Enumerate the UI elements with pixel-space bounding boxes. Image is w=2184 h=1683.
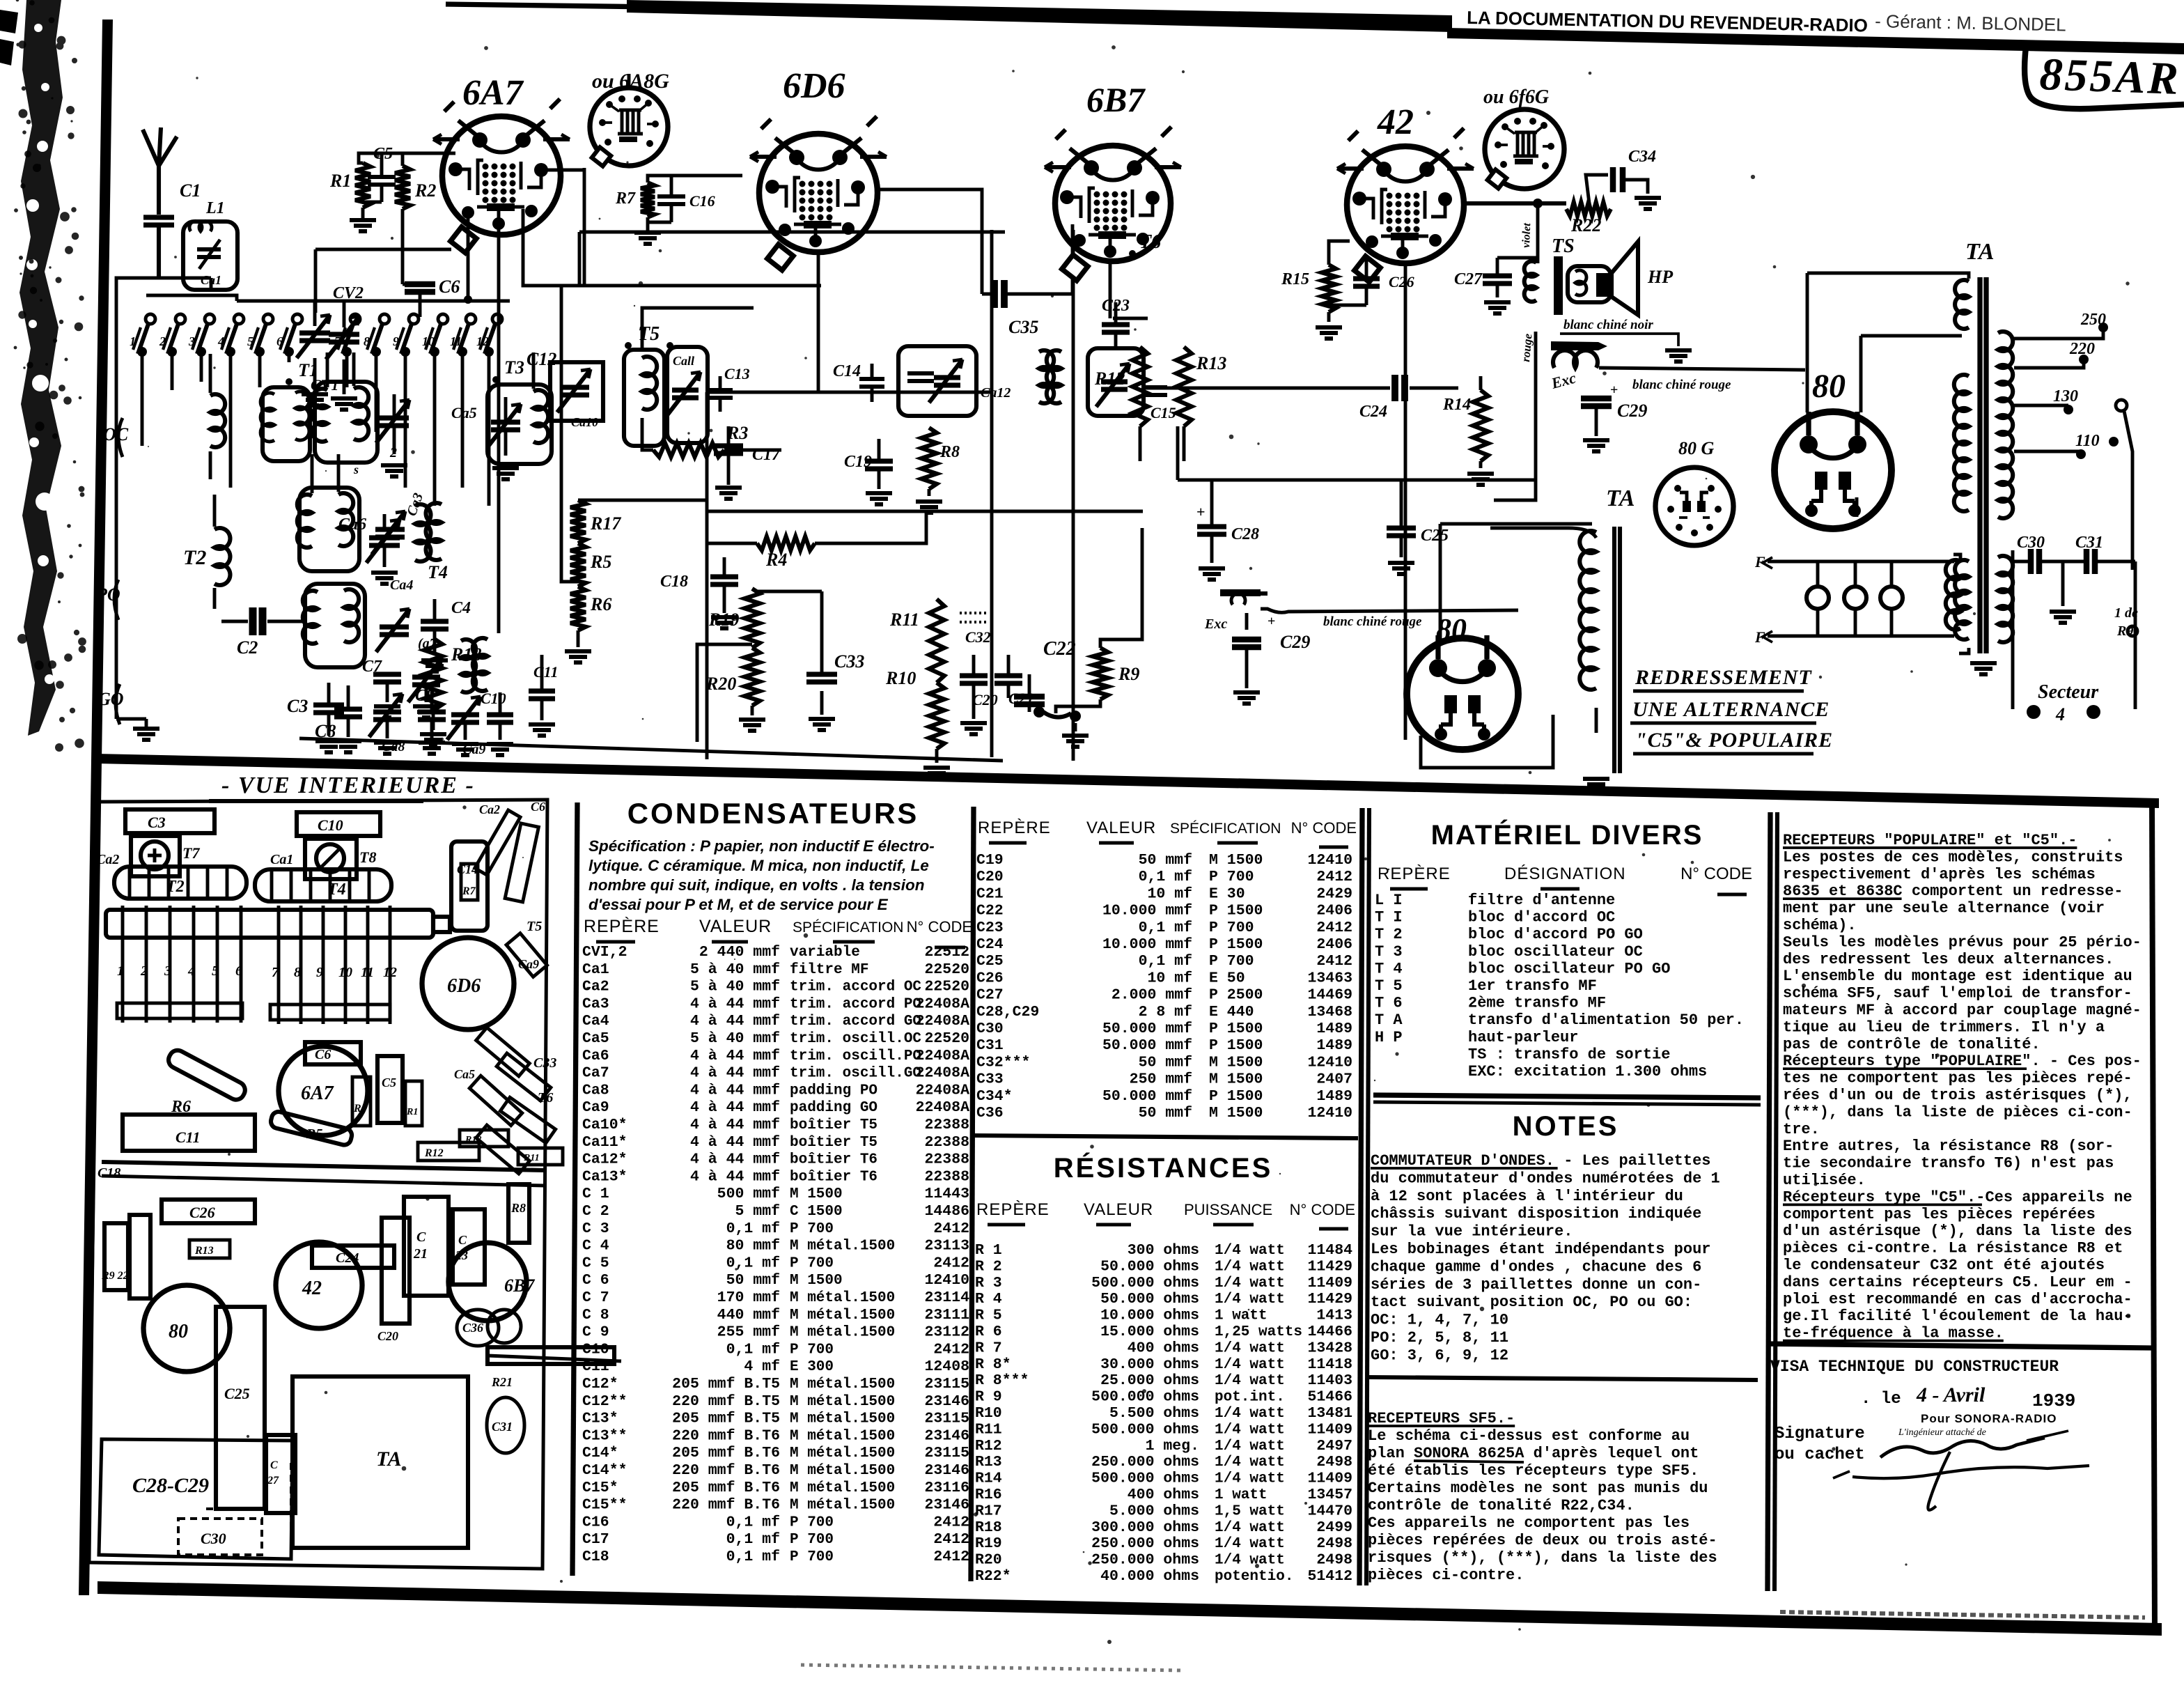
svg-text:1 watt: 1 watt [1215,1308,1267,1324]
svg-text:R 5: R 5 [975,1308,1002,1324]
svg-text:C16: C16 [582,1514,609,1530]
svg-text:P 700: P 700 [1209,920,1254,936]
svg-text:R 7: R 7 [975,1340,1002,1356]
svg-text:P 700: P 700 [1209,869,1254,885]
svg-text:4 à 44 mmf: 4 à 44 mmf [690,1048,780,1064]
svg-text:2412: 2412 [933,1255,969,1271]
svg-text:. le: . le [1861,1390,1901,1409]
svg-text:1/4 watt: 1/4 watt [1215,1422,1285,1438]
svg-text:P 1500: P 1500 [1209,1037,1263,1054]
svg-text:C11: C11 [582,1358,609,1375]
svg-text:6: 6 [235,963,242,979]
svg-text:ge.Il facilité l'écoulement de: ge.Il facilité l'écoulement de la hau- [1783,1308,2132,1325]
svg-text:12410: 12410 [1307,1105,1352,1122]
svg-text:bloc oscillateur OC: bloc oscillateur OC [1468,943,1643,961]
wire from contact 4 [229,352,233,488]
capacitor C7 [373,674,401,682]
resistor R8 [921,428,937,489]
svg-text:22408A: 22408A [916,1048,970,1064]
TA tap 250 [2014,332,2103,339]
svg-text:C17: C17 [752,446,781,464]
svg-text:MATÉRIEL DIVERS: MATÉRIEL DIVERS [1431,819,1703,851]
vue resistors R1 R2 [352,1077,370,1126]
svg-text:L1: L1 [205,199,225,217]
small tube ou 6A8G [590,88,668,166]
column rule 3a [1359,808,1362,1585]
svg-text:TA: TA [376,1448,402,1471]
band switch contact 6 [292,314,302,324]
svg-text:C 9: C 9 [582,1324,609,1341]
svg-text:40.000 ohms: 40.000 ohms [1100,1568,1199,1585]
coil T1 primary [210,394,225,447]
svg-text:1/4 watt: 1/4 watt [1215,1340,1285,1356]
coil T4 low [461,639,476,692]
svg-text:blanc chiné rouge: blanc chiné rouge [1632,378,1731,392]
T6 coils [1039,350,1054,403]
vue electrolytic C28 C29 box [99,1439,292,1559]
wire 6D6 plate to C35 [877,189,982,294]
svg-text:DÉSIGNATION: DÉSIGNATION [1504,864,1626,883]
vue capacitor C20 [382,1218,409,1324]
svg-text:6: 6 [276,334,283,348]
svg-text:comportent pas les pièces: comportent pas les pièces repérées [1783,1206,2096,1223]
svg-text:Ces appareils ne comportent: Ces appareils ne comportent pas les [1368,1514,1690,1532]
svg-text:0,1 mf: 0,1 mf [726,1220,780,1237]
svg-text:10.000 mmf: 10.000 mmf [1102,903,1192,920]
svg-text:C27: C27 [1454,270,1483,288]
svg-text:blanc chiné rouge: blanc chiné rouge [1323,614,1422,629]
svg-text:4 à 44 mmf: 4 à 44 mmf [690,1151,780,1168]
svg-text:C34: C34 [1628,148,1656,166]
svg-text:11: 11 [450,334,462,348]
svg-text:GO: GO [97,689,124,709]
svg-text:50 mmf: 50 mmf [1139,1054,1192,1071]
svg-text:C36: C36 [976,1105,1004,1122]
svg-text:440 mmf: 440 mmf [717,1307,780,1324]
svg-text:padding GO: padding GO [790,1100,877,1116]
svg-text:0,1 mf: 0,1 mf [726,1549,780,1565]
svg-text:5: 5 [212,963,219,979]
svg-text:lytique. C céramique. M mica,: lytique. C céramique. M mica, non induct… [588,857,929,874]
svg-text:22408A: 22408A [916,995,970,1012]
svg-text:SPÉCIFICATION: SPÉCIFICATION [793,920,903,936]
svg-text:Ca1: Ca1 [270,852,293,867]
svg-text:R13: R13 [194,1245,214,1257]
svg-text:P 2500: P 2500 [1209,987,1263,1004]
svg-text:C13**: C13** [582,1427,627,1444]
svg-text:CONDENSATEURS: CONDENSATEURS [627,797,919,830]
svg-text:50 mmf: 50 mmf [1139,1105,1192,1122]
svg-text:170 mmf: 170 mmf [717,1289,780,1306]
svg-text:du commutateur d'ondes numérot: du commutateur d'ondes numérotées de 1 [1371,1170,1720,1187]
svg-text:C1: C1 [180,180,201,201]
svg-text:T4: T4 [428,562,448,582]
svg-text:C35: C35 [1008,317,1038,337]
svg-text:C26: C26 [976,970,1004,986]
svg-text:REDRESSEMENT: REDRESSEMENT [1635,666,1812,689]
svg-text:contrôle de tonalité R22,C34.: contrôle de tonalité R22,C34. [1368,1497,1635,1514]
wire from contact 8 [375,352,378,432]
svg-text:C27: C27 [976,987,1004,1004]
svg-text:M 1500: M 1500 [1209,1105,1263,1122]
wire bus y734 [707,510,1143,513]
svg-text:4 à 44 mmf: 4 à 44 mmf [690,1117,780,1133]
svg-text:2 440 mmf: 2 440 mmf [699,944,780,961]
svg-text:C28,C29: C28,C29 [976,1004,1039,1021]
coil box T1 left [263,387,310,461]
svg-text:C12**: C12** [582,1393,627,1410]
capacitor C34 tone [1586,175,1608,203]
svg-text:M métal.1500: M métal.1500 [790,1308,895,1324]
svg-text:50.000 ohms: 50.000 ohms [1100,1291,1199,1308]
svg-text:mateurs MF à accord par coupla: mateurs MF à accord par couplage magné- [1783,1002,2142,1019]
svg-text:1939: 1939 [2032,1390,2075,1411]
svg-text:Ca6: Ca6 [582,1048,609,1064]
svg-text:23146: 23146 [924,1497,969,1514]
svg-text:4 mf: 4 mf [744,1358,780,1375]
svg-text:EXC: excitation 1.300 ohms: EXC: excitation 1.300 ohms [1468,1063,1707,1080]
antenna [143,127,177,215]
svg-text:12410: 12410 [1307,1054,1352,1071]
rectifier tube 80 bottom [1407,638,1518,750]
svg-text:1er transfo MF: 1er transfo MF [1468,977,1597,995]
scan smudge left margin [19,0,63,736]
wire 6D6 grid [648,174,742,183]
svg-text:R1: R1 [406,1107,418,1117]
svg-text:30.000 ohms: 30.000 ohms [1100,1356,1199,1373]
svg-text:80 G: 80 G [1678,438,1715,458]
svg-text:11409: 11409 [1307,1421,1352,1438]
svg-text:6B7: 6B7 [504,1275,535,1296]
svg-text:M métal.1500: M métal.1500 [790,1428,895,1444]
svg-text:2412: 2412 [933,1341,969,1358]
svg-text:REPÈRE: REPÈRE [1378,864,1451,883]
svg-text:PUISSANCE: PUISSANCE [1184,1201,1272,1218]
svg-text:205 mmf B.T5: 205 mmf B.T5 [672,1376,780,1393]
svg-text:M 1500: M 1500 [790,1186,843,1202]
svg-text:11418: 11418 [1307,1356,1352,1373]
svg-text:10.000 ohms: 10.000 ohms [1100,1308,1199,1324]
svg-text:UNE ALTERNANCE: UNE ALTERNANCE [1632,698,1830,721]
svg-text:R12: R12 [1094,369,1125,389]
svg-text:C11: C11 [533,663,558,681]
tube 6B7 [1055,146,1171,261]
svg-text:sur la vue intérieure.: sur la vue intérieure. [1371,1223,1573,1241]
svg-text:C 2: C 2 [582,1203,609,1220]
svg-text:E 50: E 50 [1209,970,1245,986]
vue R21 bar [487,1347,614,1364]
svg-text:M 1500: M 1500 [1209,1054,1263,1071]
resistor R1 [355,163,370,208]
svg-text:C20: C20 [377,1329,398,1343]
svg-text:1 de: 1 de [2114,605,2138,621]
svg-text:C29: C29 [1280,632,1310,652]
svg-text:C11: C11 [175,1129,200,1146]
capacitor C3 [313,705,344,713]
svg-text:Secteur: Secteur [2038,681,2099,703]
svg-text:R16: R16 [975,1487,1002,1503]
small tube ou 6F6G [1485,109,1564,189]
choke field winding [1551,341,1607,350]
svg-text:4 à 44 mmf: 4 à 44 mmf [690,1082,780,1099]
svg-text:9: 9 [316,965,323,980]
svg-text:Ca8: Ca8 [582,1082,609,1099]
capacitor C28 [1197,527,1226,534]
svg-text:séries de 3 paillettes donne: séries de 3 paillettes donne un con- [1371,1276,1701,1294]
svg-text:1/4 watt: 1/4 watt [1215,1243,1285,1259]
series capacitor C24 [1395,375,1405,401]
svg-text:2406: 2406 [1316,903,1352,920]
svg-text:6A7: 6A7 [301,1083,334,1104]
svg-text:pot.int.: pot.int. [1215,1390,1285,1406]
svg-text:C18: C18 [660,573,688,591]
svg-text:dans certains récepteurs C5. L: dans certains récepteurs C5. Leur em - [1783,1273,2132,1291]
band switch contact 9 [409,314,419,324]
svg-text:2.000 mmf: 2.000 mmf [1111,987,1192,1004]
svg-text:27: 27 [267,1475,279,1487]
capacitor C29 left [1232,639,1261,647]
svg-text:châssis suivant disposition: châssis suivant disposition indiquée [1371,1205,1701,1223]
svg-text:C 6: C 6 [582,1272,609,1289]
svg-text:transfo d'alimentation 50 per.: transfo d'alimentation 50 per. [1468,1011,1744,1029]
svg-text:1/4 watt: 1/4 watt [1215,1471,1285,1487]
svg-text:5.500 ohms: 5.500 ohms [1109,1405,1199,1422]
svg-text:VISA TECHNIQUE DU CONSTRUCTEUR: VISA TECHNIQUE DU CONSTRUCTEUR [1770,1358,2059,1376]
svg-text:VALEUR: VALEUR [1086,819,1156,837]
svg-text:1/4 watt: 1/4 watt [1215,1520,1285,1536]
vue left connectors [104,1223,128,1290]
svg-text:filtre MF: filtre MF [790,962,868,978]
svg-text:Ca10: Ca10 [571,415,598,429]
TA primary winding [1955,280,1969,329]
svg-text:C31: C31 [976,1037,1004,1054]
column rule 1 [572,802,577,1576]
svg-text:C6: C6 [439,277,460,297]
svg-text:12410: 12410 [924,1272,969,1289]
wire from contact 9 [404,352,407,488]
svg-text:T7: T7 [182,844,200,862]
svg-text:0,1 mf: 0,1 mf [726,1514,780,1530]
svg-text:42: 42 [1377,102,1414,142]
svg-text:E 440: E 440 [1209,1004,1254,1021]
svg-text:14469: 14469 [1307,987,1352,1004]
svg-text:pièces ci-contre.: pièces ci-contre. [1368,1567,1524,1584]
trimmer Ca4 [380,627,409,635]
tube 6A7 [442,116,561,235]
page left border [79,20,113,1595]
svg-text:- VUE INTERIEURE -: - VUE INTERIEURE - [221,773,475,798]
svg-text:14466: 14466 [1307,1324,1352,1340]
svg-text:6B7: 6B7 [1086,80,1146,119]
svg-text:pièces ci-contre. La résistan: pièces ci-contre. La résistance R8 et [1783,1240,2123,1257]
svg-text:R: R [353,1103,361,1115]
svg-text:250.000 ohms: 250.000 ohms [1091,1535,1199,1552]
capacitor C19b [865,461,893,469]
TA filament winding bottom [1946,560,1960,630]
svg-text:23146: 23146 [924,1393,969,1410]
wire from contact 11 [461,352,465,488]
rectifier tube 80 main [1774,412,1891,529]
svg-text:L'ingénieur attaché de: L'ingénieur attaché de [1898,1427,1986,1438]
svg-text:6D6: 6D6 [447,975,481,997]
svg-text:"C5"& POPULAIRE: "C5"& POPULAIRE [1635,729,1833,752]
svg-text:potentio.: potentio. [1215,1569,1293,1585]
svg-text:4 à 44 mmf: 4 à 44 mmf [690,1134,780,1151]
svg-text:Ca1: Ca1 [582,961,609,978]
svg-text:R11: R11 [975,1421,1002,1438]
wire from contact 3 [200,352,203,382]
svg-text:R6: R6 [590,594,611,614]
svg-text:+: + [1267,614,1275,629]
svg-text:22520: 22520 [924,979,969,995]
svg-text:50 mmf: 50 mmf [1139,852,1192,869]
svg-text:8: 8 [364,334,370,348]
wire C27 to TS [1497,258,1538,261]
svg-text:1/4 watt: 1/4 watt [1215,1438,1285,1455]
svg-text:205 mmf B.T5: 205 mmf B.T5 [672,1411,780,1427]
resistor R6 [570,587,586,630]
svg-text:C7: C7 [362,658,382,676]
svg-text:C25: C25 [1421,527,1449,545]
capacitor C11 [529,691,555,699]
svg-text:ou 6A8G: ou 6A8G [592,70,669,93]
svg-text:haut-parleur: haut-parleur [1468,1029,1578,1046]
vue capacitor C23 [453,1209,485,1285]
svg-text:T3: T3 [504,357,524,378]
wire T5 to 6D6 [642,308,754,350]
svg-text:rouge: rouge [1519,333,1535,363]
svg-text:M métal.1500: M métal.1500 [790,1463,895,1479]
band switch contact 5 [263,314,273,324]
svg-text:22388: 22388 [924,1117,969,1133]
wire AVC to R chain [561,286,578,582]
wire bus y333 [579,231,1005,234]
svg-text:d'essai pour P et M, et de ser: d'essai pour P et M, et de service pour … [588,896,889,913]
svg-text:R10: R10 [885,668,916,688]
svg-text:2412: 2412 [1316,869,1352,885]
svg-text:1489: 1489 [1316,1021,1352,1037]
svg-text:12: 12 [383,965,397,980]
svg-text:ou 6f6G: ou 6f6G [1483,86,1549,108]
wire 42 to output [1404,263,1407,740]
svg-text:filtre d'antenne: filtre d'antenne [1468,892,1615,909]
rule under notes [1368,1377,1758,1380]
svg-text:22408A: 22408A [916,1013,970,1030]
svg-text:à 12 sont placées à l'intér: à 12 sont placées à l'intérieur du [1371,1188,1683,1205]
svg-text:C10: C10 [481,690,506,707]
svg-text:2ème transfo MF: 2ème transfo MF [1468,995,1606,1012]
column rule 4 [1768,812,1770,1591]
svg-text:bloc oscillateur PO GO: bloc oscillateur PO GO [1468,960,1670,977]
vue interieure panel outline [89,800,547,1569]
svg-text:T2: T2 [183,546,206,569]
svg-text:1/4 watt: 1/4 watt [1215,1259,1285,1275]
resistor R4 [757,536,815,550]
svg-text:C25: C25 [976,953,1004,970]
svg-text:blanc chiné noir: blanc chiné noir [1563,318,1653,332]
resistor R18 [424,638,442,711]
svg-text:boîtier T5: boîtier T5 [790,1117,877,1133]
svg-text:1/4 watt: 1/4 watt [1215,1536,1285,1552]
wire vertical x1015 [705,392,709,759]
svg-text:C19: C19 [844,453,872,471]
svg-text:R20: R20 [705,674,736,694]
vue transformer TA [292,1376,468,1548]
svg-text:OC: 1, 4, 7, 10: OC: 1, 4, 7, 10 [1371,1312,1508,1329]
svg-text:C18: C18 [97,1165,120,1181]
svg-text:bloc d'accord PO GO: bloc d'accord PO GO [1468,926,1643,943]
svg-text:0,1 mf: 0,1 mf [726,1341,780,1358]
trimmer Ca3 [375,529,405,537]
svg-text:rées d'un ou de trois astérisq: rées d'un ou de trois astérisques (*), [1783,1087,2132,1104]
svg-text:Ca11*: Ca11* [582,1134,627,1151]
band switch contact 4 [234,314,244,324]
resistor R2 [395,166,410,209]
svg-text:CV2: CV2 [333,284,364,302]
svg-text:RÉSISTANCES: RÉSISTANCES [1054,1152,1273,1184]
svg-text:R9 22: R9 22 [101,1270,129,1282]
svg-text:schéma SF5, sauf l'emploi de t: schéma SF5, sauf l'emploi de transfor- [1783,985,2132,1002]
svg-text:Signature: Signature [1774,1425,1865,1443]
svg-text:boîtier T5: boîtier T5 [790,1135,877,1151]
resistor R14 [1473,390,1488,461]
svg-text:C31: C31 [2075,534,2103,552]
bottom border rule [97,1581,2162,1636]
svg-text:C33: C33 [976,1071,1004,1088]
svg-text:13468: 13468 [1307,1004,1352,1021]
svg-text:50.000 mmf: 50.000 mmf [1102,1021,1192,1037]
svg-text:2412: 2412 [1316,920,1352,936]
wire from contact 10 [433,352,437,506]
svg-text:M métal.1500: M métal.1500 [790,1376,895,1393]
vue tube 6B7 [448,1243,526,1321]
svg-text:respectivement d'après les: respectivement d'après les schémas [1783,866,2096,883]
svg-text:11484: 11484 [1307,1242,1352,1259]
svg-text:9: 9 [393,334,399,348]
vue capacitor C6 label [305,1042,361,1064]
vue switch comb [121,906,125,1023]
wire 6D6 bottom [817,252,820,391]
svg-text:220 mmf B.T6: 220 mmf B.T6 [672,1427,780,1444]
svg-text:R8: R8 [939,443,960,461]
svg-text:500 mmf: 500 mmf [717,1186,780,1202]
wire long left bus [315,248,451,251]
svg-text:CVI,2: CVI,2 [582,944,627,961]
svg-text:R11: R11 [889,610,919,630]
vue capacitor C21 [404,1197,448,1296]
svg-text:R 3: R 3 [975,1275,1002,1292]
wire from contact 2 [171,352,174,390]
svg-text:Ca2: Ca2 [582,979,609,995]
svg-text:220 mmf B.T6: 220 mmf B.T6 [672,1497,780,1514]
svg-text:boîtier T6: boîtier T6 [790,1152,877,1168]
svg-text:23113: 23113 [924,1238,969,1255]
excitation winding Exc [1224,591,1267,596]
TA tap 130 [2014,404,2068,408]
svg-text:2498: 2498 [1316,1552,1352,1569]
svg-text:1/4 watt: 1/4 watt [1215,1373,1285,1389]
svg-text:5 à 40 mmf: 5 à 40 mmf [690,979,780,995]
svg-text:pas de contrôle de tonalité.: pas de contrôle de tonalité. [1783,1036,2041,1053]
svg-text:C: C [458,1233,467,1247]
svg-text:10 mf: 10 mf [1147,885,1192,902]
svg-text:C24: C24 [976,936,1004,953]
vue capacitor C31 oval [487,1397,524,1453]
svg-text:C32***: C32*** [976,1054,1030,1071]
svg-text:23114: 23114 [924,1289,969,1306]
svg-text:1489: 1489 [1316,1088,1352,1105]
svg-text:2412: 2412 [933,1514,969,1530]
